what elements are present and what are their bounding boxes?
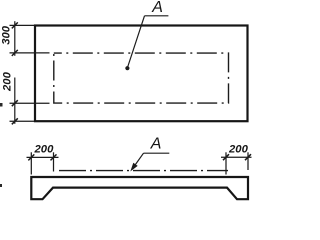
tick at 300 top	[12, 22, 18, 28]
section centerline dash-dot	[59, 170, 228, 172]
svg-text:A: A	[151, 0, 163, 16]
leader shelf A (plan)	[145, 15, 169, 17]
svg-text:300: 300	[1, 25, 13, 45]
tick right 200 a	[223, 154, 229, 160]
left 200 extension line a	[30, 152, 32, 174]
leader line A (plan)	[128, 16, 145, 68]
svg-text:A: A	[150, 136, 162, 153]
section profile of ribbed panel	[31, 177, 248, 199]
svg-text:200: 200	[2, 71, 14, 92]
inner dash-dot rectangle: opening axis contour	[54, 53, 229, 103]
tick at 300 bottom	[12, 50, 18, 56]
tick left 200 a	[28, 154, 34, 160]
left 200 extension line b	[53, 152, 55, 171]
leader dot A (plan)	[125, 66, 129, 70]
dimension line vertical left (300 segment)	[14, 21, 16, 56]
leader line A (section)	[133, 153, 143, 167]
outer rectangle: panel plan view	[35, 26, 248, 122]
svg-text:200: 200	[228, 144, 249, 156]
tick right 200 b	[245, 154, 251, 160]
extension line top (outer rect top)	[10, 24, 35, 26]
right 200 extension line b	[247, 152, 249, 170]
extension line (inner rect top)	[10, 52, 50, 54]
right 200 extension line a	[225, 152, 227, 174]
extension line (inner rect bottom)	[10, 102, 50, 104]
tick at 200 bottom	[12, 118, 18, 124]
left 200 dimension line (section)	[27, 156, 59, 158]
scan speck left edge 1	[0, 103, 3, 107]
leader shelf A (section)	[144, 152, 170, 154]
extension line bottom (outer rect bottom)	[10, 120, 35, 122]
svg-text:200: 200	[34, 143, 55, 155]
scan speck left edge 2	[0, 184, 2, 187]
right 200 dimension line (section)	[221, 156, 252, 158]
leader arrowhead A (section)	[130, 163, 137, 172]
tick left 200 b	[51, 154, 57, 160]
dimension line vertical left (200 segment)	[14, 78, 16, 124]
tick at 200 top	[12, 100, 18, 106]
